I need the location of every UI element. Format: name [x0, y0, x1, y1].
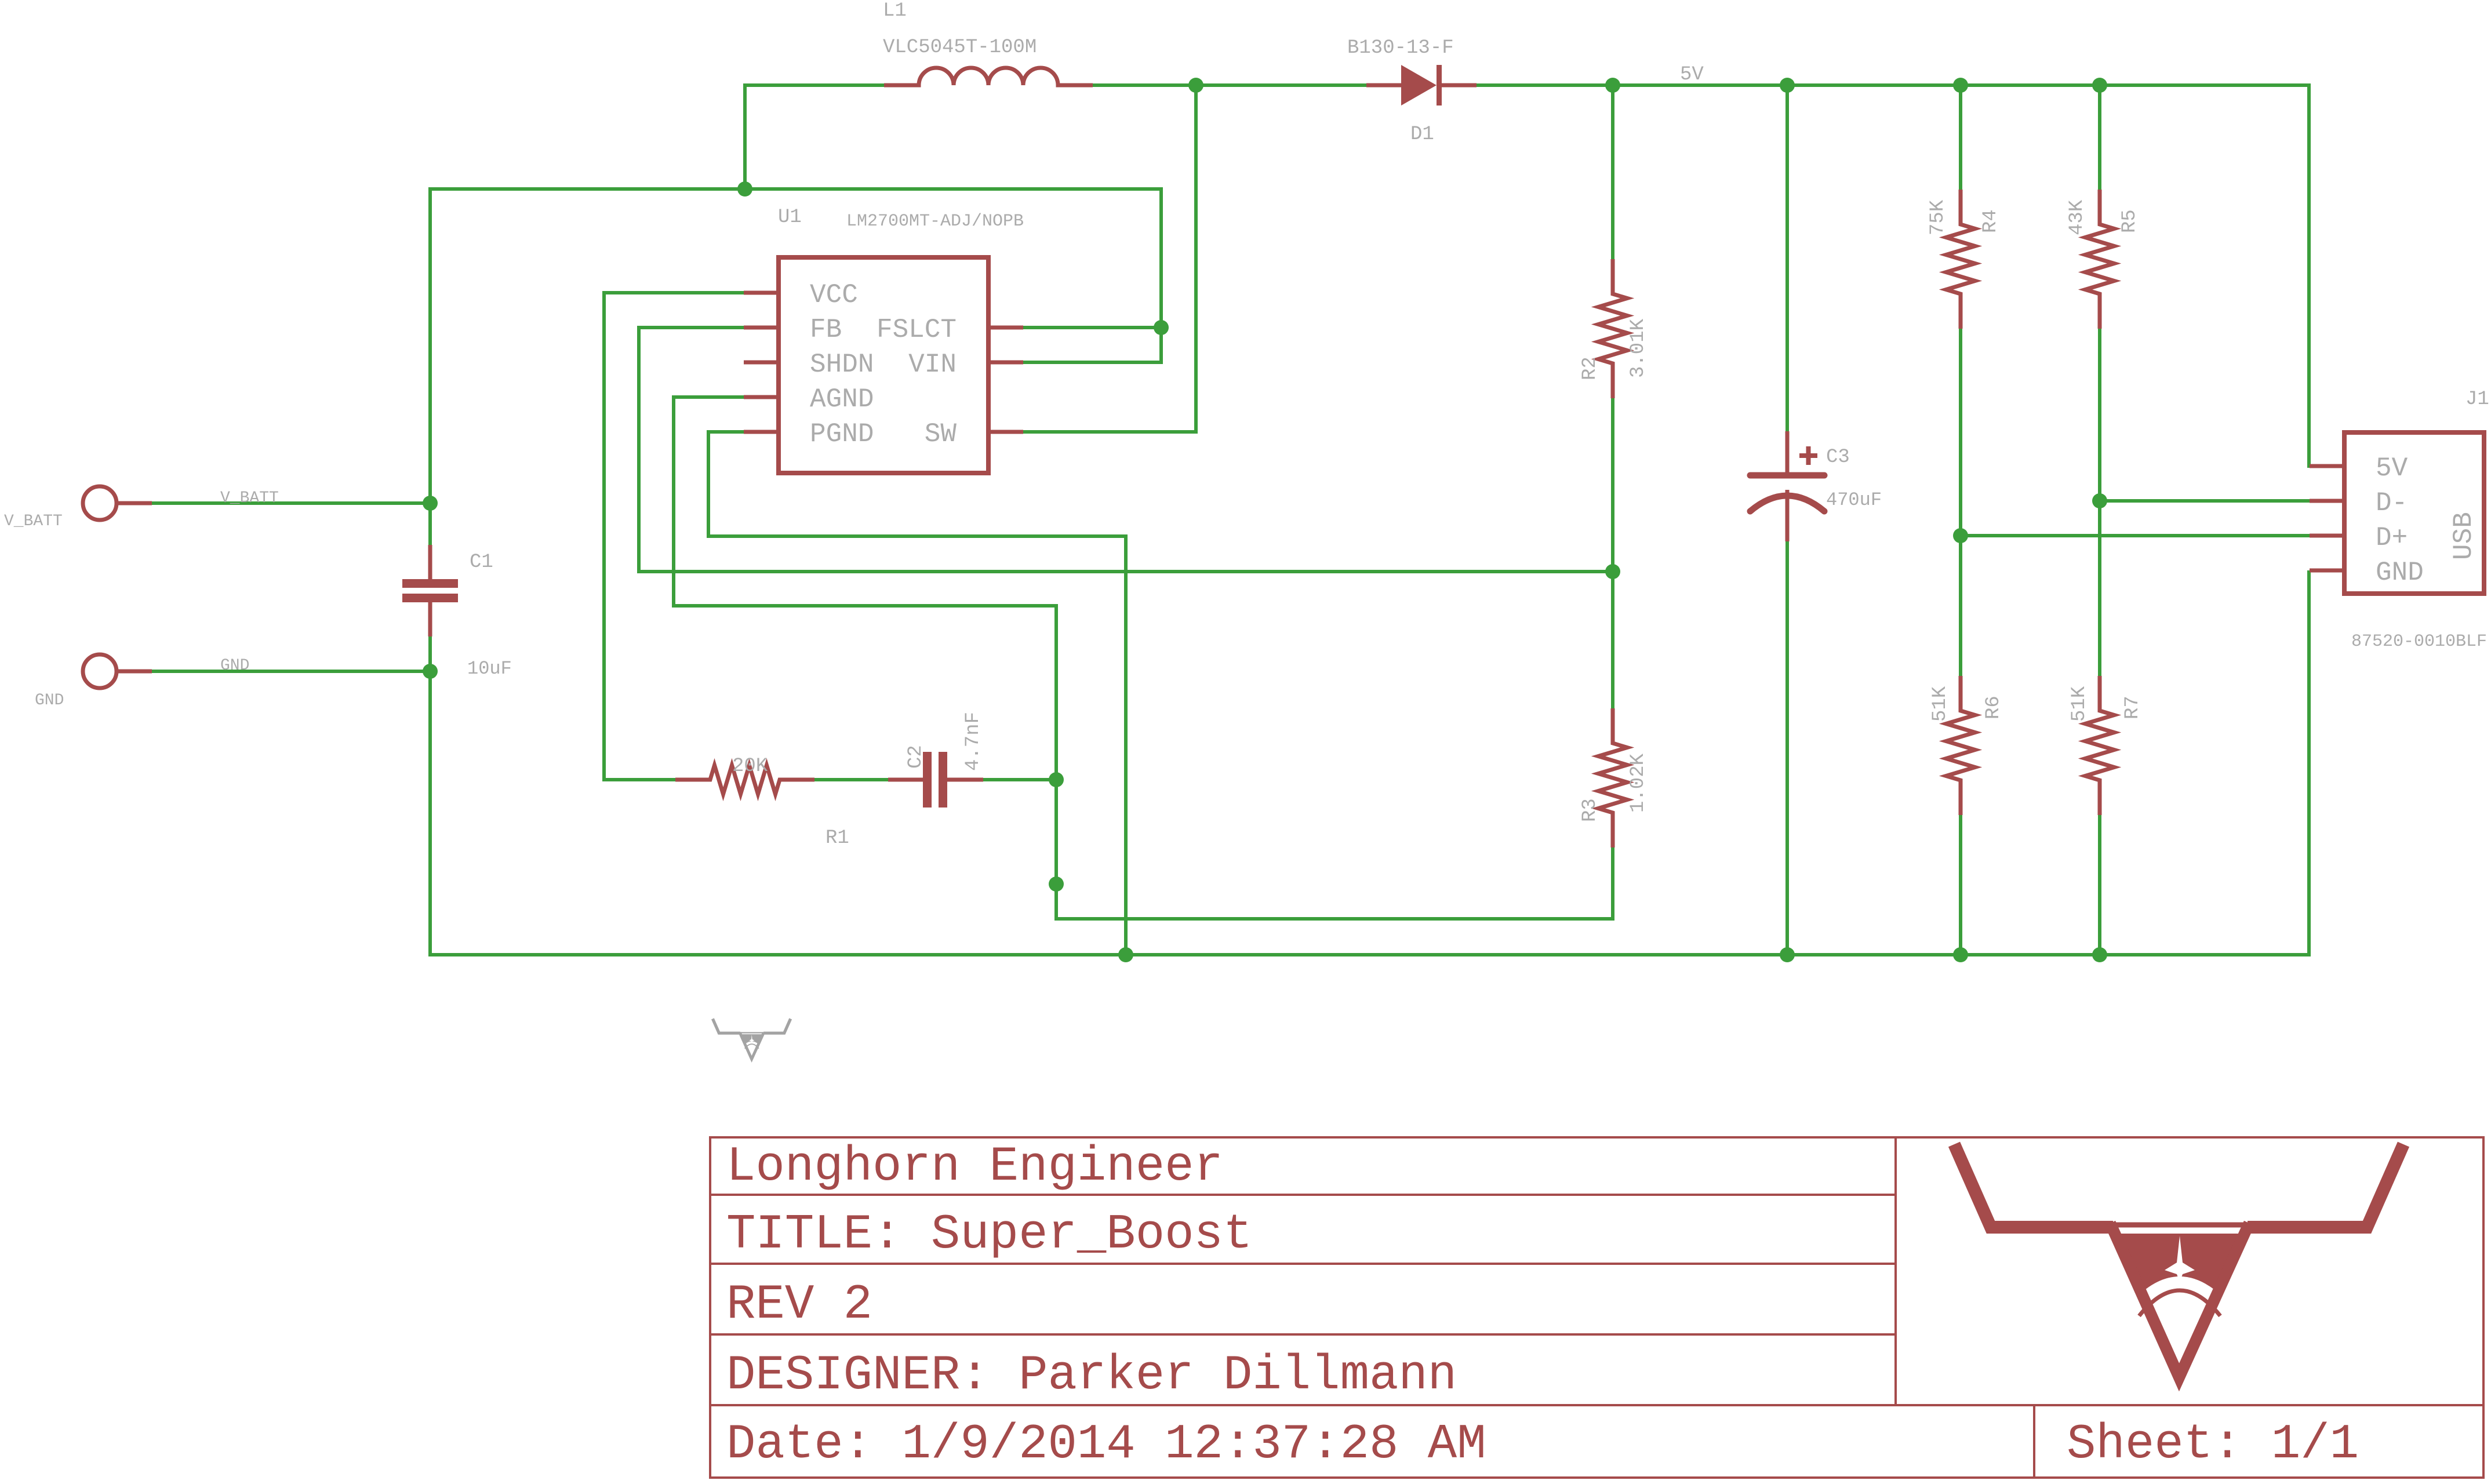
svg-text:VIN: VIN — [908, 350, 957, 380]
svg-text:USB: USB — [2449, 512, 2479, 560]
svg-text:R6: R6 — [1983, 696, 2005, 719]
diode D1 — [1366, 65, 1477, 106]
wire VCC to R1 — [604, 293, 744, 780]
svg-text:51K: 51K — [2068, 686, 2090, 722]
svg-text:5V: 5V — [1680, 64, 1704, 86]
junction C2 node — [1049, 772, 1064, 787]
svg-text:SHDN: SHDN — [810, 350, 874, 380]
wire C3 top — [1785, 85, 1789, 431]
capacitor C1 — [402, 545, 458, 636]
svg-text:VLC5045T-100M: VLC5045T-100M — [883, 37, 1037, 59]
wire VIN drop vertical x=2003 — [1023, 187, 1161, 362]
resistor R2 — [1598, 259, 1627, 398]
title block frame — [710, 1137, 2483, 1478]
svg-text:GND: GND — [2376, 558, 2424, 588]
svg-text:FB: FB — [810, 315, 842, 345]
junction top rail R2 — [1605, 78, 1620, 93]
svg-text:20K: 20K — [732, 755, 768, 777]
wire PGND net — [708, 432, 1126, 955]
svg-text:D-: D- — [2376, 488, 2408, 518]
USB connector J1 box — [2344, 432, 2484, 594]
junction top rail SW — [1188, 78, 1203, 93]
wire C3 bottom — [1785, 541, 1789, 955]
svg-text:REV 2: REV 2 — [726, 1278, 872, 1333]
wire V_BATT horizontal rail y=326 — [430, 187, 1161, 191]
wire V_BATT pad to column — [152, 501, 430, 505]
wire D- net — [2100, 499, 2310, 503]
wire top rail D1 to 5V corner — [1477, 83, 2309, 87]
wire R7 bottom — [2098, 815, 2101, 955]
junction FB divider — [1605, 564, 1620, 579]
junction VBATT riser — [737, 181, 752, 197]
junction AGND node — [1049, 876, 1064, 892]
junction bottom rail R7 — [2092, 947, 2107, 962]
svg-text:43K: 43K — [2066, 199, 2088, 235]
junction top rail R4 — [1953, 78, 1968, 93]
pad GND — [83, 654, 152, 688]
svg-text:Date: 1/9/2014 12:37:28 AM: Date: 1/9/2014 12:37:28 AM — [726, 1417, 1486, 1472]
wire FSLCT to VIN column — [1023, 326, 1161, 329]
svg-text:PGND: PGND — [810, 419, 874, 449]
svg-text:D1: D1 — [1410, 123, 1434, 146]
wire R4 to R6 — [1959, 329, 1962, 676]
svg-text:FSLCT: FSLCT — [877, 315, 957, 345]
pad V_BATT — [83, 486, 152, 520]
resistor R7 — [2085, 676, 2114, 815]
wire R2 top — [1611, 85, 1614, 259]
wire R1 to C2 — [814, 778, 888, 781]
wire R5 top — [2098, 85, 2101, 190]
svg-text:GND: GND — [220, 657, 249, 675]
wire V_BATT column upper — [428, 187, 432, 545]
wire V_BATT column lower — [428, 636, 432, 956]
U1 pin stubs right — [988, 328, 1023, 432]
svg-text:R5: R5 — [2119, 209, 2141, 233]
wire R2 bottom to R3 top — [1611, 398, 1614, 708]
svg-text:D+: D+ — [2376, 523, 2408, 553]
wire D+ net — [1961, 534, 2310, 537]
svg-text:3.01K: 3.01K — [1627, 318, 1649, 378]
junction D- R5 — [2092, 493, 2107, 508]
svg-text:Longhorn Engineer: Longhorn Engineer — [726, 1140, 1223, 1195]
wire FB net — [639, 328, 1613, 572]
svg-text:V_BATT: V_BATT — [220, 489, 279, 507]
svg-text:GND: GND — [35, 692, 64, 710]
svg-text:C1: C1 — [470, 551, 493, 573]
svg-text:TITLE: Super_Boost: TITLE: Super_Boost — [726, 1207, 1252, 1263]
svg-text:5V: 5V — [2376, 453, 2408, 483]
svg-text:1.02K: 1.02K — [1627, 753, 1649, 813]
junction top rail R5 — [2092, 78, 2107, 93]
svg-text:R4: R4 — [1980, 209, 2002, 233]
svg-text:75K: 75K — [1927, 199, 1949, 235]
svg-text:R3: R3 — [1579, 798, 1601, 822]
svg-text:B130-13-F: B130-13-F — [1347, 37, 1454, 59]
wire R4 top — [1959, 85, 1962, 190]
wire SW riser x=2063 — [1023, 85, 1196, 432]
svg-text:SW: SW — [925, 419, 957, 449]
junction bottom rail R6 — [1953, 947, 1968, 962]
resistor R4 — [1946, 190, 1975, 329]
svg-text:AGND: AGND — [810, 384, 874, 414]
svg-text:J1: J1 — [2465, 388, 2489, 410]
wire GND pad to column — [152, 670, 430, 673]
wire top rail L1 to D1 — [1093, 83, 1366, 87]
svg-text:R1: R1 — [826, 827, 849, 849]
junction GND pad — [423, 664, 438, 679]
wire USB GND column — [2307, 570, 2311, 956]
svg-text:51K: 51K — [1929, 686, 1951, 722]
junction top rail C3 — [1780, 78, 1795, 93]
junction bottom rail PGND — [1118, 947, 1133, 962]
svg-text:V_BATT: V_BATT — [4, 512, 63, 530]
svg-text:R2: R2 — [1579, 357, 1601, 380]
resistor R1 — [675, 765, 814, 794]
logo longhorn small gray — [712, 1019, 790, 1059]
svg-text:C2: C2 — [905, 745, 927, 769]
svg-text:10uF: 10uF — [467, 658, 512, 679]
capacitor C3 — [1750, 431, 1824, 541]
svg-text:Sheet: 1/1: Sheet: 1/1 — [2067, 1417, 2359, 1472]
junction V_BATT pad — [423, 496, 438, 511]
svg-text:LM2700MT-ADJ/NOPB: LM2700MT-ADJ/NOPB — [846, 212, 1024, 231]
capacitor C2 — [888, 752, 983, 808]
resistor R5 — [2085, 190, 2114, 329]
svg-text:U1: U1 — [778, 206, 802, 228]
inductor L1 — [884, 68, 1093, 85]
U1 pin stubs left — [744, 293, 779, 432]
junction D+ R4 — [1953, 528, 1968, 543]
wire AGND net — [674, 397, 1613, 919]
svg-text:4.7nF: 4.7nF — [962, 712, 984, 771]
svg-text:87520-0010BLF: 87520-0010BLF — [2351, 632, 2487, 652]
resistor R6 — [1946, 676, 1975, 815]
wire top rail left riser x=1285 — [745, 85, 884, 189]
wire R6 bottom — [1959, 815, 1962, 955]
wire R5 to R7 — [2098, 329, 2101, 676]
junction bottom rail C3 — [1780, 947, 1795, 962]
wire C2 to junction — [983, 778, 1056, 781]
logo longhorn large — [1954, 1144, 2403, 1377]
wire bottom GND rail — [430, 953, 2309, 956]
svg-text:R7: R7 — [2122, 696, 2144, 719]
svg-text:C3: C3 — [1826, 446, 1850, 468]
svg-text:DESIGNER: Parker Dillmann: DESIGNER: Parker Dillmann — [726, 1348, 1457, 1403]
svg-text:470uF: 470uF — [1826, 489, 1882, 511]
resistor R3 — [1598, 708, 1627, 848]
junction FSLCT — [1154, 320, 1169, 335]
op-amp U1 box — [779, 257, 988, 473]
USB pin stubs — [2310, 466, 2344, 570]
wire 5V drop to USB — [2309, 83, 2310, 466]
svg-text:VCC: VCC — [810, 280, 858, 310]
svg-text:L1: L1 — [883, 0, 907, 22]
